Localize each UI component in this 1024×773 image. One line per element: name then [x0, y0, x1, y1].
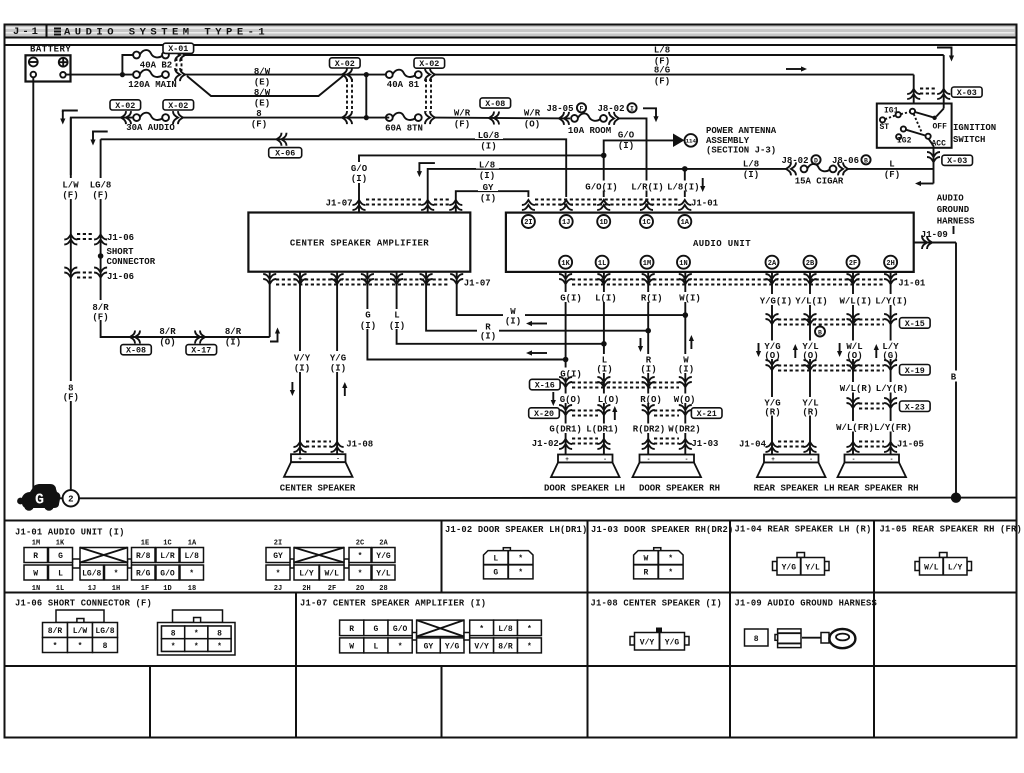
- label R (I) at corner: [477, 323, 499, 339]
- label G/O (I) inline CSA: [347, 162, 371, 183]
- connector J1-03 chevrons: [642, 439, 655, 449]
- connector X-03 chevron bottom: [927, 152, 940, 162]
- label X-02 above mid: [330, 58, 361, 68]
- ignition switch internals: [880, 104, 948, 149]
- svg-text:B: B: [818, 329, 822, 336]
- svg-text:1C: 1C: [163, 540, 171, 548]
- svg-text:J1-06: J1-06: [107, 233, 134, 243]
- label L (I) inline: [388, 309, 405, 329]
- pin 1K: [559, 256, 572, 269]
- node B wire junction: [951, 493, 961, 503]
- svg-text:R: R: [349, 625, 354, 634]
- table column dividers row2: [295, 593, 297, 667]
- svg-text:1F: 1F: [141, 585, 149, 593]
- label X-08: [480, 98, 511, 108]
- connector J1-04 chevrons: [766, 442, 779, 452]
- svg-text:J1-01 AUDIO UNIT (I): J1-01 AUDIO UNIT (I): [15, 528, 125, 538]
- svg-text:Y/L(I): Y/L(I): [795, 297, 827, 307]
- svg-text:X-21: X-21: [697, 409, 717, 419]
- svg-text:*: *: [668, 569, 673, 578]
- svg-text:R: R: [33, 552, 38, 561]
- svg-text:X-02: X-02: [419, 59, 439, 69]
- J1-06 connector 2: [158, 610, 236, 655]
- svg-text:2: 2: [68, 495, 73, 505]
- svg-text:R(O): R(O): [640, 395, 662, 405]
- labels G(O) L(O) R(O) W(O): [558, 394, 698, 404]
- connector chevron X-17 on 8/R: [195, 331, 205, 344]
- label R (I) second: [639, 354, 658, 373]
- svg-text:J1-05: J1-05: [897, 440, 924, 450]
- svg-text:X-03: X-03: [957, 88, 977, 98]
- svg-text:2C: 2C: [356, 540, 364, 548]
- wire G/O line CSA to 1D: [359, 155, 604, 212]
- svg-text:REAR SPEAKER LH: REAR SPEAKER LH: [753, 484, 834, 494]
- connector chevron X-06: [277, 133, 287, 146]
- wire ACC output down: [929, 139, 934, 184]
- svg-text:2H: 2H: [302, 585, 310, 593]
- label W (I) on line: [503, 308, 525, 324]
- svg-text:G: G: [35, 492, 44, 509]
- svg-text:8: 8: [754, 635, 759, 644]
- svg-text:*: *: [358, 570, 363, 579]
- svg-text:R(I): R(I): [641, 294, 663, 304]
- connector chevron after 60A BTN: [425, 111, 435, 124]
- svg-text:L/Y: L/Y: [948, 564, 963, 573]
- labels G(I) L(I) R(I) W(I) row: [548, 292, 703, 302]
- arrow stub below ACC: [921, 183, 934, 185]
- svg-text:1J: 1J: [562, 219, 570, 227]
- wire 1K down: [565, 272, 567, 455]
- ignition switch box: [877, 104, 952, 148]
- svg-text:X-01: X-01: [168, 44, 188, 54]
- label X-02 right: [414, 58, 445, 68]
- wire G CSA to 1K: [367, 272, 565, 360]
- connector X-15 chevron row: [766, 314, 779, 324]
- svg-text:AUDIO: AUDIO: [937, 194, 965, 204]
- svg-text:X-15: X-15: [905, 319, 925, 329]
- wire G to circle 2: [57, 497, 63, 499]
- svg-text:Y/G(I): Y/G(I): [760, 297, 792, 307]
- wire 2A down: [771, 272, 773, 455]
- svg-text:G/O: G/O: [351, 164, 368, 174]
- pin 2B: [804, 256, 817, 269]
- J1-04 connector: [773, 553, 830, 576]
- fuse 30A AUDIO: [133, 113, 169, 121]
- svg-text:8/R: 8/R: [225, 327, 242, 337]
- wire node link vertical: [365, 75, 367, 118]
- node battery feed: [120, 72, 125, 77]
- connector J1-05 chevrons: [847, 442, 860, 452]
- svg-text:(I): (I): [480, 142, 496, 152]
- wire B(F) line: [183, 117, 389, 119]
- svg-text:*: *: [518, 569, 523, 578]
- arrow right on L/B line: [786, 66, 807, 71]
- svg-text:-: -: [685, 456, 689, 463]
- svg-text:L/8: L/8: [184, 552, 199, 561]
- svg-text:(I): (I): [505, 317, 521, 327]
- svg-text:X-08: X-08: [485, 99, 505, 109]
- arrow elbow left of 30A AUDIO: [63, 111, 78, 113]
- svg-text:W/L: W/L: [924, 564, 939, 573]
- svg-text:(I): (I): [678, 365, 694, 375]
- svg-text:*: *: [276, 570, 281, 579]
- fuse 15A CIGAR: [801, 164, 837, 172]
- pin 1N: [677, 256, 690, 269]
- J1-07 connector group 2: [412, 620, 464, 653]
- pin 1L: [596, 256, 609, 269]
- label X-16: [530, 379, 561, 390]
- svg-text:1N: 1N: [32, 585, 40, 593]
- pin 1M: [641, 256, 654, 269]
- svg-text:1K: 1K: [56, 540, 65, 548]
- svg-text:X-16: X-16: [535, 381, 555, 391]
- wire L CSA to 1L: [397, 272, 604, 344]
- wire G/O up to power antenna: [604, 140, 674, 155]
- svg-text:ST: ST: [880, 123, 890, 132]
- table column dividers row3: [149, 666, 151, 738]
- svg-text:L/Y(I): L/Y(I): [875, 297, 907, 307]
- svg-text:W/R: W/R: [524, 109, 541, 119]
- svg-text:HARNESS: HARNESS: [937, 217, 975, 227]
- X-01 dashed pair: [176, 58, 178, 71]
- J1-08 connector: [630, 628, 689, 651]
- node B/W to B(F) link top: [364, 72, 369, 77]
- connector chevron before 10A ROOM: [559, 112, 569, 125]
- svg-text:I: I: [630, 106, 634, 113]
- svg-text:1D: 1D: [163, 585, 171, 593]
- table row divider 1: [5, 592, 1017, 594]
- J1-07 connector group 1: [340, 620, 413, 653]
- wire battery positive to fuse node: [66, 74, 133, 76]
- node R line at 1M: [645, 328, 651, 334]
- svg-text:J1-07 CENTER SPEAKER AMPLIFIER: J1-07 CENTER SPEAKER AMPLIFIER (I): [300, 599, 486, 609]
- svg-text:8/W: 8/W: [254, 67, 271, 77]
- connector chevron after 30A AUDIO: [173, 111, 183, 124]
- wire battery ground (left terminal down to G): [32, 77, 34, 489]
- svg-text:SHORT: SHORT: [107, 247, 135, 257]
- svg-text:8: 8: [171, 630, 176, 639]
- svg-text:L: L: [394, 311, 399, 321]
- svg-text:POWER ANTENNA: POWER ANTENNA: [706, 126, 777, 136]
- svg-text:L/R: L/R: [160, 552, 175, 561]
- svg-text:(I): (I): [480, 332, 496, 342]
- svg-text:SWITCH: SWITCH: [953, 135, 985, 145]
- svg-text:X-23: X-23: [905, 402, 925, 412]
- svg-text:L/W: L/W: [62, 181, 79, 191]
- svg-text:R/8: R/8: [136, 552, 151, 561]
- svg-text:1M: 1M: [32, 540, 40, 548]
- labels above audio unit pins: [584, 181, 696, 191]
- svg-text:W/L(I): W/L(I): [839, 297, 871, 307]
- arrow down left of R label: [638, 338, 643, 352]
- node G/O split: [601, 153, 607, 159]
- J1-01 group link nubs: [73, 559, 81, 568]
- labels Y/G (O) Y/L (O) W/L (O) L/Y (O): [762, 341, 782, 360]
- svg-text:B: B: [864, 158, 868, 165]
- connector chevron before 30A AUDIO: [121, 111, 131, 124]
- svg-text:*: *: [398, 643, 403, 652]
- svg-text:2H: 2H: [886, 260, 894, 268]
- label LG/B (F): [87, 178, 114, 199]
- fuse 60A BTN: [386, 113, 422, 121]
- wire CSA pin1 to 8/R: [269, 272, 271, 337]
- node L/B at 1A: [682, 166, 688, 172]
- connector X-01 chevron: [175, 49, 185, 62]
- svg-text:8: 8: [217, 630, 222, 639]
- connector chevron after cigar: [838, 162, 848, 175]
- label G(I) second: [557, 368, 585, 378]
- connector J1-07 top chevron row: [353, 200, 366, 210]
- svg-text:2F: 2F: [849, 260, 857, 268]
- svg-text:(R): (R): [802, 407, 818, 417]
- pin 2H: [884, 256, 897, 269]
- svg-text:L: L: [58, 570, 63, 579]
- connector J1-02 chevrons: [559, 439, 572, 449]
- svg-text:G: G: [493, 569, 498, 578]
- wire Y/G to center speaker: [336, 272, 338, 455]
- svg-text:Y/G: Y/G: [330, 354, 346, 364]
- J1-01 pin numbers top: [32, 540, 389, 548]
- connector J1-06 row1 chevrons: [64, 235, 77, 245]
- svg-text:L/8: L/8: [498, 625, 513, 634]
- J1-01 connector boxes row A: [24, 548, 395, 563]
- labels W/L(R) L/Y(R): [838, 382, 910, 393]
- svg-text:(F): (F): [63, 393, 79, 403]
- svg-text:J1-06: J1-06: [107, 272, 134, 282]
- svg-text:1E: 1E: [141, 540, 149, 548]
- svg-text:W(DR2): W(DR2): [668, 424, 700, 434]
- connector X-19 chevron row: [766, 360, 779, 370]
- svg-text:(F): (F): [92, 191, 108, 201]
- svg-text:CENTER SPEAKER: CENTER SPEAKER: [280, 484, 356, 494]
- svg-text:X-06: X-06: [275, 149, 295, 159]
- J1-07 connector group 3: [464, 620, 541, 653]
- arrow elbow at room corner: [643, 107, 656, 110]
- svg-text:W: W: [349, 643, 354, 652]
- arrow up right of 1L at X-20: [612, 406, 617, 420]
- svg-text:10A ROOM: 10A ROOM: [568, 126, 611, 136]
- wire 40A B2 out (L/B line to right): [185, 54, 944, 56]
- connector X-02 chevrons mid (left pair): [342, 68, 352, 81]
- svg-text:*: *: [527, 643, 532, 652]
- arrow elbow up at 8/R to CSA: [270, 341, 278, 342]
- svg-text:40A 81: 40A 81: [387, 80, 420, 90]
- svg-text:(I): (I): [351, 174, 367, 184]
- svg-text:*: *: [171, 642, 176, 651]
- svg-text:G(I): G(I): [560, 294, 582, 304]
- svg-text:18: 18: [188, 585, 196, 593]
- svg-text:ASSEMBLY: ASSEMBLY: [706, 136, 750, 146]
- svg-text:1H: 1H: [112, 585, 120, 593]
- fuse 40A B1: [386, 70, 422, 78]
- svg-text:J1-08 CENTER SPEAKER (I): J1-08 CENTER SPEAKER (I): [591, 599, 723, 609]
- svg-text:8: 8: [103, 642, 108, 651]
- svg-text:REAR SPEAKER RH: REAR SPEAKER RH: [837, 484, 918, 494]
- svg-text:(SECTION J-3): (SECTION J-3): [706, 146, 776, 156]
- svg-text:-: -: [336, 456, 340, 463]
- labels Y/G (R) Y/L (R): [762, 397, 782, 416]
- svg-text:8/R: 8/R: [498, 643, 513, 652]
- label X-21: [691, 408, 722, 419]
- wire R CSA to 1M: [426, 272, 648, 331]
- svg-text:J1-02: J1-02: [532, 439, 559, 449]
- svg-text:(F): (F): [92, 313, 108, 323]
- wire B/W upper: [185, 74, 387, 76]
- svg-text:X-17: X-17: [191, 346, 211, 356]
- svg-text:F: F: [580, 106, 584, 113]
- svg-text:(F): (F): [884, 170, 900, 180]
- labels Y/G(I) Y/L(I) W/L(I) L/Y(I): [755, 294, 910, 305]
- svg-text:(I): (I): [330, 364, 346, 374]
- svg-text:1C: 1C: [642, 219, 650, 227]
- svg-text:*: *: [527, 625, 532, 634]
- svg-text:X-20: X-20: [534, 409, 554, 419]
- speaker rear RH: [838, 455, 907, 478]
- svg-text:(O): (O): [524, 120, 540, 130]
- connector chevron after 40A B1: [425, 68, 435, 81]
- wire 30A AUDIO feed corner from L/W: [71, 118, 134, 175]
- svg-text:L/R(I): L/R(I): [631, 183, 663, 193]
- J1-03 connector: [634, 548, 684, 579]
- svg-text:V/Y: V/Y: [640, 639, 655, 648]
- svg-text:120A MAIN: 120A MAIN: [128, 80, 177, 90]
- svg-text:W/R: W/R: [454, 109, 471, 119]
- arrow down before G(O): [551, 392, 556, 406]
- svg-text:J1-04 REAR SPEAKER LH (R): J1-04 REAR SPEAKER LH (R): [735, 525, 872, 535]
- label L (I) second: [595, 354, 614, 373]
- fuse 120A MAIN: [133, 70, 169, 78]
- connector J1-07 bottom chevron row: [263, 274, 276, 284]
- speaker door RH: [633, 455, 702, 478]
- label B (F) on L/W wire: [60, 381, 82, 401]
- svg-text:DOOR SPEAKER RH: DOOR SPEAKER RH: [639, 484, 720, 494]
- svg-text:8/G: 8/G: [654, 66, 670, 76]
- svg-text:G(DR1): G(DR1): [549, 424, 581, 434]
- svg-text:*: *: [217, 642, 222, 651]
- node G line at 1K: [563, 357, 569, 363]
- svg-text:*: *: [194, 630, 199, 639]
- labels G(DR1) L(DR1) R(DR2) W(DR2): [548, 424, 703, 434]
- J1-01 connector boxes row B: [24, 565, 395, 580]
- svg-text:15A CIGAR: 15A CIGAR: [795, 176, 844, 186]
- label X-23: [900, 401, 931, 412]
- svg-text:J1-05 REAR SPEAKER RH (FR): J1-05 REAR SPEAKER RH (FR): [880, 525, 1022, 535]
- wire 1L down: [603, 272, 605, 455]
- svg-text:-: -: [809, 456, 813, 463]
- svg-text:-: -: [852, 456, 856, 463]
- connector chevron after 120A MAIN: [175, 68, 185, 81]
- svg-text:(E): (E): [254, 99, 270, 109]
- node short connector: [98, 253, 104, 259]
- node B/W to B(F) link bottom: [364, 115, 369, 120]
- label 8/R (F): [89, 300, 113, 320]
- svg-text:X-19: X-19: [905, 366, 925, 376]
- svg-text:Y/G: Y/G: [665, 639, 680, 648]
- svg-text:R: R: [643, 569, 648, 578]
- label X-03 bottom: [942, 155, 973, 165]
- svg-text:2O: 2O: [356, 585, 364, 593]
- connector chevron X-08 on 8/R: [130, 331, 140, 344]
- svg-text:Y/G: Y/G: [376, 552, 391, 561]
- svg-text:L/Y: L/Y: [299, 570, 314, 579]
- svg-text:1D: 1D: [599, 219, 607, 227]
- pin 2I: [522, 215, 535, 228]
- pin 1J: [560, 215, 573, 228]
- connector J1-01 bottom chevron row: [559, 274, 572, 284]
- pin 1A: [678, 215, 691, 228]
- wire 10A ROOM out to 1C: [618, 118, 647, 197]
- J1-01 pin numbers bottom: [32, 585, 388, 593]
- svg-text:Y/G: Y/G: [782, 564, 797, 573]
- svg-text:(I): (I): [294, 364, 310, 374]
- svg-text:(I): (I): [480, 194, 496, 204]
- svg-text:(I): (I): [640, 365, 656, 375]
- label W (I) second: [676, 354, 695, 373]
- svg-text:X-03: X-03: [947, 156, 967, 166]
- node circled 2: [63, 490, 79, 506]
- wire LG/B (F) corner from X-06 line: [101, 139, 270, 337]
- wire L/B corner down to X-03: [943, 55, 945, 104]
- pin 2A: [766, 256, 779, 269]
- svg-text:1K: 1K: [561, 260, 570, 268]
- svg-text:(R): (R): [764, 407, 780, 417]
- svg-text:(I): (I): [479, 171, 495, 181]
- connector chevron J1-09: [922, 236, 932, 249]
- svg-text:L(DR1): L(DR1): [586, 424, 618, 434]
- svg-text:L: L: [373, 643, 378, 652]
- speaker rear LH: [757, 455, 826, 478]
- tick from harness label to wire: [953, 226, 955, 234]
- svg-text:W/L(FR): W/L(FR): [836, 423, 874, 433]
- node L line at 1L: [601, 341, 607, 347]
- svg-text:W: W: [33, 570, 38, 579]
- wire 2H down: [890, 272, 892, 455]
- svg-text:G(O): G(O): [560, 395, 582, 405]
- svg-text:J1-09 AUDIO GROUND HARNESS: J1-09 AUDIO GROUND HARNESS: [735, 599, 877, 609]
- fuse 40A B2: [133, 50, 169, 58]
- svg-text:-: -: [647, 456, 651, 463]
- connector chevron before cigar: [786, 162, 796, 175]
- arrows down/up rear label row: [756, 343, 761, 357]
- svg-text:L(O): L(O): [598, 395, 620, 405]
- wire 1N down: [684, 272, 686, 455]
- svg-text:LG/8: LG/8: [82, 570, 101, 579]
- svg-text:J8-06: J8-06: [832, 156, 859, 166]
- svg-text:J1-04: J1-04: [739, 440, 767, 450]
- svg-text:W: W: [643, 555, 648, 564]
- op-amp box center speaker amplifier: [248, 213, 470, 272]
- label X-20: [529, 408, 560, 419]
- svg-text:J8-02: J8-02: [597, 104, 624, 114]
- arrow up on Y/G: [341, 380, 350, 398]
- connector chevron X-08: [489, 112, 499, 125]
- table row divider 2: [5, 665, 1017, 667]
- wire B/G line right: [435, 74, 914, 76]
- svg-text:G: G: [373, 625, 378, 634]
- connector chevron after 10A ROOM: [609, 112, 619, 125]
- svg-text:X-08: X-08: [126, 346, 146, 356]
- svg-text:W(O): W(O): [674, 395, 696, 405]
- svg-text:W/L: W/L: [324, 570, 339, 579]
- svg-text:28: 28: [379, 585, 387, 593]
- svg-text:J1-09: J1-09: [921, 230, 948, 240]
- svg-text:*: *: [668, 555, 673, 564]
- label L/B (I) left: [476, 161, 499, 169]
- svg-text:2I: 2I: [274, 540, 282, 548]
- connector J1-06 row2 chevrons: [64, 268, 77, 278]
- svg-text:G/O: G/O: [393, 625, 408, 634]
- arrow elbow left of LG/B start: [93, 132, 108, 133]
